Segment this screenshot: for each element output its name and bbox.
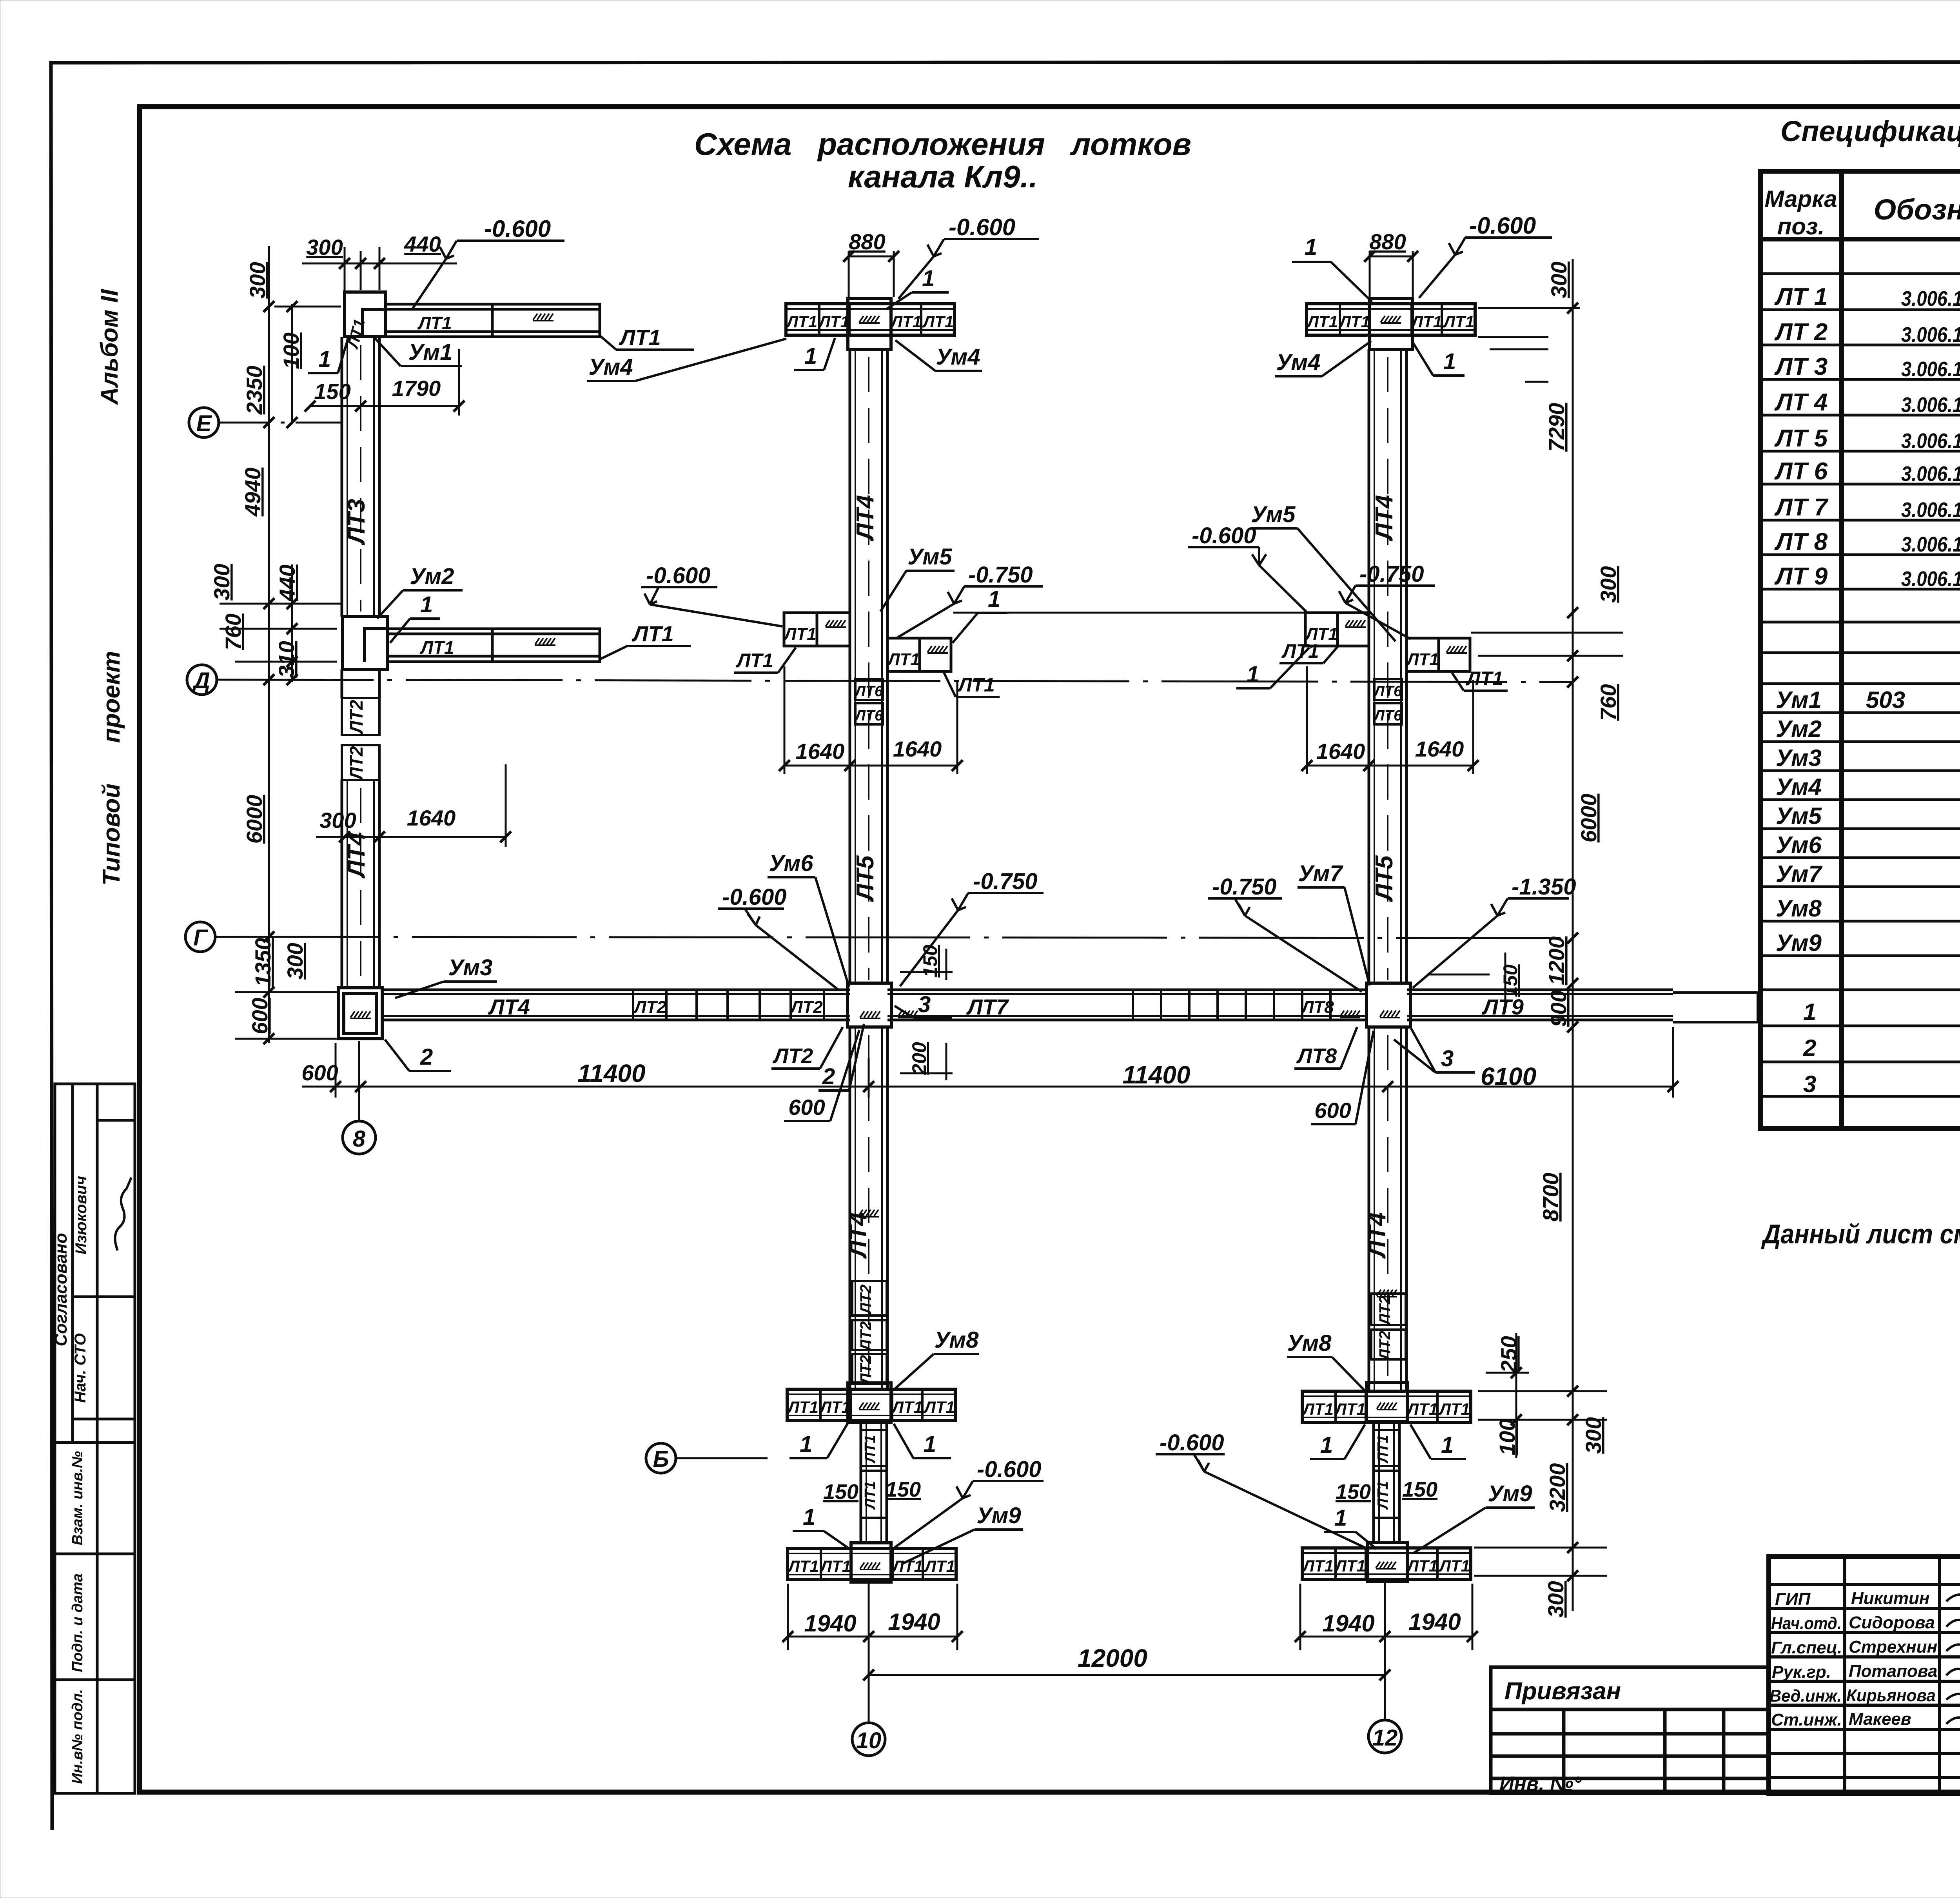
left mid ЛТ1 tray strip: [388, 629, 600, 662]
svg-text:ЛТ1: ЛТ1: [736, 650, 773, 671]
svg-text:ЛТ2: ЛТ2: [857, 1321, 875, 1352]
svg-text:Схема расположения лотков: Схема расположения лотков: [694, 127, 1191, 161]
horizontal channel walls right span ЛТ9: [1407, 990, 1673, 1020]
svg-text:-0.600: -0.600: [949, 214, 1015, 240]
svg-text:503: 503: [1866, 687, 1905, 713]
axis Е circle: [189, 408, 341, 437]
label 1 middle top: [887, 266, 949, 309]
svg-text:1640: 1640: [1316, 739, 1365, 764]
svg-text:3.006.1-2/82вып 1 - 1: 3.006.1-2/82вып 1 - 1: [1901, 393, 1960, 417]
middle Ум8 center box: [848, 1383, 891, 1422]
elevation -0.600 right top: [1419, 212, 1552, 298]
left channel bottom box Ум3 at Г: [338, 988, 382, 1039]
label Ум5 middle: [880, 544, 955, 611]
svg-text:12: 12: [1372, 1725, 1398, 1751]
label 1 middle Д: [953, 586, 1007, 643]
label 1 top left: [308, 338, 348, 373]
svg-text:ЛТ1: ЛТ1: [419, 637, 454, 658]
right Д junction right ЛТ1 strip: [1406, 638, 1470, 671]
svg-text:ЛТ5: ЛТ5: [1371, 855, 1398, 902]
ЛТ1 leader label middle Д left: [734, 648, 796, 673]
right Ум9 box: [1367, 1542, 1407, 1582]
table header texts: [1764, 186, 1960, 240]
labels 1 below middle Ум8: [789, 1424, 951, 1458]
svg-text:3.006.1-2/82вып 1 - 1: 3.006.1-2/82вып 1 - 1: [1901, 287, 1960, 310]
svg-text:Ум8: Ум8: [935, 1327, 979, 1353]
labels 1 below right Ум8: [1310, 1424, 1466, 1459]
label ЛТ2 with 2 below channel: [771, 1024, 864, 1091]
label 3 right: [1394, 1029, 1475, 1072]
right Ум8 center box: [1367, 1383, 1407, 1422]
svg-text:-1.350: -1.350: [1512, 874, 1576, 900]
elevation -0.750 middle Д: [898, 562, 1043, 637]
dimension 1640 1640 middle: [784, 666, 957, 774]
svg-text:Нач. СТО: Нач. СТО: [72, 1333, 89, 1403]
svg-text:1350: 1350: [250, 938, 275, 987]
elevation -0.600 middle top: [898, 214, 1039, 299]
svg-text:600: 600: [301, 1060, 338, 1085]
svg-text:ЛТ4: ЛТ4: [1371, 495, 1398, 542]
svg-text:300: 300: [306, 235, 343, 259]
svg-text:Подп. и дата: Подп. и дата: [69, 1573, 86, 1672]
label 600 leader below right junction: [1311, 1031, 1374, 1124]
label 1 mid left: [390, 592, 440, 643]
svg-text:880: 880: [849, 229, 885, 254]
svg-text:3.006.1-2/82вып 1 - 1: 3.006.1-2/82вып 1 - 1: [1901, 498, 1960, 522]
tray dividers right group: [1133, 990, 1330, 1020]
dimension 880 middle: [849, 251, 894, 297]
label Ум4 right channel: [1275, 341, 1371, 376]
ЛТ2 boxes below Д on left channel: [342, 698, 379, 781]
label Ум9 right: [1414, 1481, 1535, 1553]
left channel walls upper run ЛТ3: [342, 337, 379, 617]
middle channel top T strip: [786, 304, 955, 335]
svg-text:1: 1: [803, 1504, 815, 1530]
ЛТ2 boxes right lower: [1371, 1294, 1406, 1361]
svg-text:150: 150: [314, 379, 350, 404]
svg-text:Ум9: Ум9: [1488, 1481, 1532, 1506]
svg-text:3.006.1-2/82вып 1 - 1: 3.006.1-2/82вып 1 - 1: [1901, 462, 1960, 486]
svg-text:1940: 1940: [1408, 1609, 1461, 1635]
svg-text:ЛТ6: ЛТ6: [854, 708, 883, 724]
svg-text:300: 300: [319, 808, 356, 833]
svg-text:ЛТ8: ЛТ8: [1301, 998, 1334, 1017]
svg-text:ЛТ2: ЛТ2: [1376, 1331, 1394, 1361]
svg-text:Альбом II: Альбом II: [96, 289, 123, 405]
margin approval table Согласовано: [55, 1084, 135, 1443]
svg-text:2: 2: [1803, 1035, 1816, 1061]
svg-text:Ум1: Ум1: [408, 339, 453, 365]
svg-text:-0.750: -0.750: [1359, 561, 1424, 587]
dimension 12000: [869, 1674, 1385, 1676]
svg-text:-0.600: -0.600: [646, 563, 710, 588]
middle Д junction left ЛТ1 strip: [783, 613, 850, 646]
svg-text:-0.600: -0.600: [977, 1457, 1041, 1482]
elevation -0.600 before Ум6: [718, 884, 839, 990]
dimension 880 right: [1370, 251, 1413, 297]
svg-text:8: 8: [353, 1126, 366, 1152]
left chain dim texts: [209, 262, 307, 1034]
dimension 300 1640 left: [316, 764, 506, 847]
elevation -0.600 right Д: [1188, 523, 1308, 613]
svg-text:7290: 7290: [1544, 403, 1569, 452]
svg-text:11400: 11400: [1122, 1061, 1190, 1089]
right chain ticks: [1511, 303, 1578, 1581]
svg-text:ЛТ1: ЛТ1: [957, 674, 995, 696]
svg-text:-0.600: -0.600: [722, 884, 786, 910]
svg-text:1940: 1940: [888, 1609, 940, 1635]
ЛТ2 boxes middle lower: [852, 1281, 887, 1385]
title block signatures: [1946, 1592, 1960, 1764]
left channel mid box Ум2: [343, 617, 388, 670]
margin inventory table: [55, 1443, 135, 1793]
middle top T center box Ум4: [848, 298, 891, 349]
svg-text:Ум4: Ум4: [1276, 350, 1321, 375]
table detail rows 1 2 3: [1803, 999, 1960, 1098]
svg-text:Стрехнин: Стрехнин: [1849, 1637, 1937, 1657]
right channel walls below Ум8: [1374, 1422, 1399, 1542]
label 3 middle: [895, 992, 952, 1018]
svg-text:1640: 1640: [1415, 737, 1464, 761]
svg-text:1640: 1640: [893, 737, 942, 761]
svg-text:Ум1: Ум1: [1776, 687, 1822, 713]
svg-text:Ин.в№ подл.: Ин.в№ подл.: [69, 1689, 86, 1784]
svg-text:Ум2: Ум2: [1776, 716, 1822, 742]
right Ум8 cross strip: [1302, 1391, 1471, 1423]
axis Б circle: [646, 1443, 768, 1473]
middle channel walls below Ум8: [861, 1422, 887, 1543]
svg-text:ЛТ4: ЛТ4: [488, 994, 530, 1019]
svg-text:Сидорова: Сидорова: [1849, 1613, 1935, 1632]
elevation -0.600 middle Д left: [641, 563, 782, 626]
svg-text:12000: 12000: [1078, 1644, 1147, 1672]
svg-text:ЛТ1: ЛТ1: [1375, 1481, 1391, 1510]
svg-text:Ум8: Ум8: [1776, 895, 1822, 922]
right top T center box Ум4: [1369, 298, 1412, 349]
svg-text:600: 600: [788, 1095, 825, 1120]
svg-text:ЛТ1: ЛТ1: [1466, 668, 1503, 690]
horizontal channel walls left span: [382, 990, 850, 1020]
left channel top corner box Ум1: [345, 292, 385, 337]
label 1 right of right channel: [1412, 341, 1465, 376]
svg-text:600: 600: [1314, 1098, 1351, 1123]
svg-text:440: 440: [275, 564, 299, 601]
axis 10 circle: [852, 1580, 885, 1756]
svg-text:1: 1: [420, 592, 433, 617]
hatch below Г middle: [858, 1210, 879, 1217]
svg-text:3.006.1-2/82вып 1 - 1: 3.006.1-2/82вып 1 - 1: [1901, 567, 1960, 591]
horizontal channel end stub: [1673, 993, 1758, 1022]
svg-text:Е: Е: [196, 411, 212, 436]
svg-text:Нач.отд.: Нач.отд.: [1771, 1614, 1842, 1633]
svg-text:ЛТ4: ЛТ4: [1364, 1212, 1391, 1259]
svg-text:Никитин: Никитин: [1851, 1589, 1929, 1608]
label Ум1: [373, 336, 462, 366]
label Ум8 right: [1287, 1330, 1365, 1391]
bottom dimension line 600 11400 11400 6100: [302, 1027, 1673, 1098]
svg-text:150: 150: [1402, 1478, 1437, 1501]
svg-text:ЛТ1: ЛТ1: [862, 1435, 878, 1464]
svg-text:ЛТ6: ЛТ6: [1373, 683, 1402, 700]
svg-text:Ум8: Ум8: [1287, 1330, 1332, 1356]
label Ум3: [395, 955, 497, 998]
middle Д junction right ЛТ1 strip: [887, 638, 951, 671]
svg-text:ЛТ 1: ЛТ 1: [1774, 283, 1828, 310]
elevation -0.750 right Д: [1339, 561, 1435, 639]
svg-text:ЛТ2: ЛТ2: [857, 1355, 875, 1385]
svg-text:3: 3: [1441, 1046, 1454, 1071]
svg-text:-0.600: -0.600: [484, 216, 551, 242]
svg-text:3200: 3200: [1545, 1463, 1570, 1512]
svg-text:760: 760: [221, 613, 245, 650]
svg-text:ЛТ5: ЛТ5: [852, 855, 879, 902]
hatch in left top strip: [533, 314, 554, 321]
left dimension chain line: [220, 246, 341, 1043]
svg-text:Ум9: Ум9: [1776, 930, 1822, 956]
svg-text:Макеев: Макеев: [1849, 1709, 1911, 1729]
svg-text:150: 150: [1499, 964, 1521, 997]
svg-text:Гл.спец.: Гл.спец.: [1771, 1638, 1842, 1657]
svg-text:ЛТ9: ЛТ9: [1481, 994, 1524, 1019]
svg-text:Ум4: Ум4: [1776, 774, 1822, 800]
tray dividers left group: [633, 990, 824, 1020]
label Ум4 right of middle channel: [895, 340, 982, 371]
svg-text:2: 2: [822, 1064, 835, 1089]
svg-text:6000: 6000: [1576, 794, 1601, 843]
label 1 right top: [1292, 234, 1372, 302]
hatches in horizontal channel: [860, 1011, 880, 1018]
svg-text:ЛТ2: ЛТ2: [772, 1044, 813, 1068]
svg-text:ЛТ1: ЛТ1: [619, 325, 661, 350]
ЛТ1 boxes below middle Ум8: [861, 1430, 887, 1518]
svg-text:ЛТ1: ЛТ1: [1281, 640, 1319, 662]
svg-text:300: 300: [283, 943, 307, 979]
svg-text:ЛТ7: ЛТ7: [966, 994, 1009, 1019]
dimension 150 right Г: [1427, 953, 1505, 1003]
right channel walls below Г: [1369, 1027, 1406, 1391]
label 2 below Ум3: [385, 1040, 451, 1071]
svg-text:-0.600: -0.600: [1469, 212, 1536, 239]
svg-text:ЛТ 7: ЛТ 7: [1774, 494, 1829, 521]
svg-text:Кирьянова: Кирьянова: [1846, 1686, 1936, 1705]
ЛТ6 boxes right: [1373, 679, 1402, 724]
svg-text:ЛТ 4: ЛТ 4: [1774, 389, 1828, 416]
horizontal channel walls middle span: [887, 990, 1367, 1020]
left chain ticks: [263, 301, 298, 1044]
svg-text:ЛТ1: ЛТ1: [632, 621, 674, 646]
svg-text:10: 10: [856, 1728, 882, 1753]
label 1 left of middle Ум9: [793, 1504, 850, 1549]
svg-text:Ум4: Ум4: [589, 354, 633, 380]
svg-text:Ум3: Ум3: [448, 955, 493, 980]
svg-text:Ум6: Ум6: [1776, 832, 1822, 858]
svg-text:Ум5: Ум5: [908, 544, 953, 570]
svg-text:2350: 2350: [242, 366, 267, 415]
right chain dim texts: [1495, 261, 1621, 1617]
right channel walls upper run: [1369, 349, 1406, 984]
label 1 below right Д: [1236, 648, 1309, 688]
svg-text:100: 100: [1495, 1419, 1519, 1455]
svg-text:1200: 1200: [1544, 936, 1569, 985]
svg-text:ЛТ 8: ЛТ 8: [1774, 528, 1828, 555]
svg-text:Ум3: Ум3: [1776, 745, 1822, 771]
svg-text:6000: 6000: [242, 795, 267, 844]
svg-text:100: 100: [279, 332, 303, 369]
margin signature: [115, 1178, 131, 1250]
svg-text:1: 1: [318, 347, 331, 372]
label Ум2: [377, 564, 463, 619]
svg-text:1640: 1640: [796, 739, 845, 764]
svg-text:Г: Г: [193, 925, 208, 951]
svg-text:1: 1: [1305, 234, 1317, 260]
right Г junction box Ум7: [1367, 983, 1410, 1027]
dimension 1940 1940 left pair: [788, 1584, 957, 1650]
svg-text:Спецификация к схеме расположе: Спецификация к схеме расположения лотков: [1780, 115, 1960, 147]
svg-text:ГИП: ГИП: [1775, 1590, 1811, 1609]
svg-text:1640: 1640: [407, 806, 456, 830]
svg-text:Согласовано: Согласовано: [51, 1233, 71, 1346]
svg-text:1: 1: [1803, 999, 1816, 1025]
label 1 left of right Ум9: [1324, 1505, 1377, 1549]
svg-text:150: 150: [886, 1478, 921, 1501]
label Ум5 right: [1250, 502, 1396, 641]
axis Д circle: [187, 665, 1573, 695]
ЛТ1 leader label middle Д right: [944, 673, 1000, 697]
elevation -0.750 right Г: [1208, 874, 1362, 992]
svg-text:Вед.инж.: Вед.инж.: [1769, 1686, 1842, 1706]
svg-text:1: 1: [1334, 1505, 1347, 1531]
svg-text:3: 3: [918, 992, 931, 1017]
hatch in Ум3 box: [350, 1011, 371, 1018]
svg-text:ЛТ4: ЛТ4: [845, 1212, 872, 1259]
svg-text:Ум5: Ум5: [1776, 803, 1822, 829]
svg-text:-0.750: -0.750: [973, 869, 1037, 894]
svg-text:-0.750: -0.750: [1212, 874, 1276, 900]
svg-text:Данный лист см с листами 18,19: Данный лист см с листами 18,19,41... 44.: [1761, 1219, 1960, 1249]
svg-text:поз.: поз.: [1777, 213, 1825, 240]
dimension 150 1790: [310, 349, 459, 416]
dimension 150 middle Г: [900, 949, 953, 980]
svg-text:300: 300: [245, 262, 270, 298]
ЛТ1 boxes below right Ум8: [1374, 1430, 1399, 1518]
middle Ум9 box: [851, 1543, 891, 1582]
svg-text:ЛТ4: ЛТ4: [852, 495, 879, 542]
middle Г junction box Ум6: [848, 983, 891, 1027]
svg-text:Ум7: Ум7: [1298, 861, 1344, 886]
svg-text:200: 200: [908, 1042, 930, 1075]
middle bottom strip Ум9: [787, 1548, 956, 1580]
svg-text:Типовой проект: Типовой проект: [98, 651, 125, 886]
svg-text:Ум9: Ум9: [977, 1503, 1021, 1528]
svg-text:150: 150: [919, 945, 941, 978]
label Ум6: [768, 851, 849, 987]
svg-text:Б: Б: [653, 1446, 669, 1472]
svg-text:1: 1: [1443, 349, 1456, 374]
svg-text:1: 1: [924, 1432, 936, 1457]
label Ум9 middle: [902, 1503, 1023, 1564]
svg-text:ЛТ2: ЛТ2: [857, 1285, 875, 1315]
ЛТ1 leader label right Д left: [1279, 640, 1338, 663]
svg-text:1: 1: [1320, 1432, 1333, 1458]
elevation -0.600 right bottom: [1156, 1430, 1367, 1548]
svg-text:Привязан: Привязан: [1504, 1678, 1621, 1705]
elevation -0.600 middle bottom: [895, 1457, 1044, 1548]
svg-text:ЛТ6: ЛТ6: [1373, 708, 1402, 724]
svg-text:-0.600: -0.600: [1160, 1430, 1224, 1455]
svg-text:1940: 1940: [1322, 1610, 1374, 1637]
svg-text:300: 300: [209, 564, 234, 600]
svg-text:канала Кл9..: канала Кл9..: [848, 159, 1038, 194]
left channel wall segment below Ум2 box: [342, 670, 379, 698]
axis 12 circle: [1368, 1578, 1401, 1753]
svg-text:Марка: Марка: [1764, 186, 1837, 212]
svg-text:Ум6: Ум6: [769, 851, 814, 876]
svg-text:ЛТ1: ЛТ1: [887, 650, 920, 669]
svg-text:300: 300: [1543, 1581, 1568, 1617]
svg-text:Д: Д: [192, 668, 210, 693]
svg-text:Ум2: Ум2: [410, 564, 454, 589]
svg-text:ЛТ 6: ЛТ 6: [1774, 458, 1828, 485]
label Ум4 left of middle channel: [587, 339, 786, 381]
right bottom strip Ум9: [1302, 1548, 1471, 1579]
svg-text:ЛТ 3: ЛТ 3: [1774, 353, 1828, 380]
svg-text:ЛТ 5: ЛТ 5: [1774, 425, 1828, 452]
svg-text:Рук.гр.: Рук.гр.: [1772, 1662, 1831, 1682]
dimension 150 150 right bottom: [1336, 1478, 1437, 1504]
svg-text:310: 310: [274, 641, 299, 677]
bindings table Привязан: [1491, 1667, 1768, 1793]
label ЛТ8 below channel: [1294, 1027, 1357, 1069]
specification table grid: [1760, 171, 1960, 1129]
elevation -0.600 top left: [412, 216, 564, 309]
svg-text:3.006.1-2/82вып 1 - 1: 3.006.1-2/82вып 1 - 1: [1901, 323, 1960, 347]
svg-text:4940: 4940: [240, 468, 265, 517]
svg-text:Обозначение: Обозначение: [1874, 193, 1960, 226]
svg-text:Ум5: Ум5: [1251, 502, 1296, 527]
svg-text:900: 900: [1546, 990, 1571, 1027]
dimension 1940 1940 right pair: [1300, 1584, 1472, 1650]
svg-text:ЛТ6: ЛТ6: [854, 683, 883, 700]
ЛТ1 leader label right Д right: [1452, 668, 1508, 691]
svg-text:ЛТ2: ЛТ2: [346, 746, 367, 781]
svg-text:ЛТ1: ЛТ1: [417, 313, 452, 333]
svg-text:6100: 6100: [1481, 1062, 1536, 1091]
svg-text:ЛТ8: ЛТ8: [1296, 1044, 1337, 1068]
middle Ум8 cross strip: [787, 1389, 956, 1421]
svg-text:ЛТ3: ЛТ3: [343, 499, 370, 546]
svg-text:ЛТ2: ЛТ2: [346, 700, 367, 735]
title block roles: [1769, 1589, 1937, 1729]
middle channel walls upper run: [850, 349, 887, 984]
svg-text:ЛТ1: ЛТ1: [1406, 650, 1439, 669]
svg-text:3.006.1-2/82вып 1 - 1: 3.006.1-2/82вып 1 - 1: [1901, 533, 1960, 556]
svg-text:150: 150: [823, 1480, 858, 1504]
svg-text:ЛТ2: ЛТ2: [789, 998, 823, 1017]
svg-text:Инв. №°: Инв. №°: [1499, 1773, 1582, 1795]
ЛТ1 leader label top left: [600, 325, 694, 350]
svg-text:11400: 11400: [577, 1059, 645, 1087]
left top ЛТ1 tray strip: [385, 304, 600, 337]
dimension 200 middle Г: [900, 1043, 953, 1080]
svg-text:ЛТ 2: ЛТ 2: [1774, 319, 1828, 346]
right channel top T strip: [1306, 304, 1475, 335]
svg-text:Изюкович: Изюкович: [73, 1176, 90, 1254]
svg-text:3.006.1-2/82вып 1 - 1: 3.006.1-2/82вып 1 - 1: [1901, 429, 1960, 453]
svg-text:8700: 8700: [1538, 1173, 1563, 1222]
svg-text:1: 1: [988, 586, 1000, 612]
svg-text:1: 1: [922, 266, 935, 291]
table rows ЛТ1-ЛТ9: [1774, 283, 1960, 592]
